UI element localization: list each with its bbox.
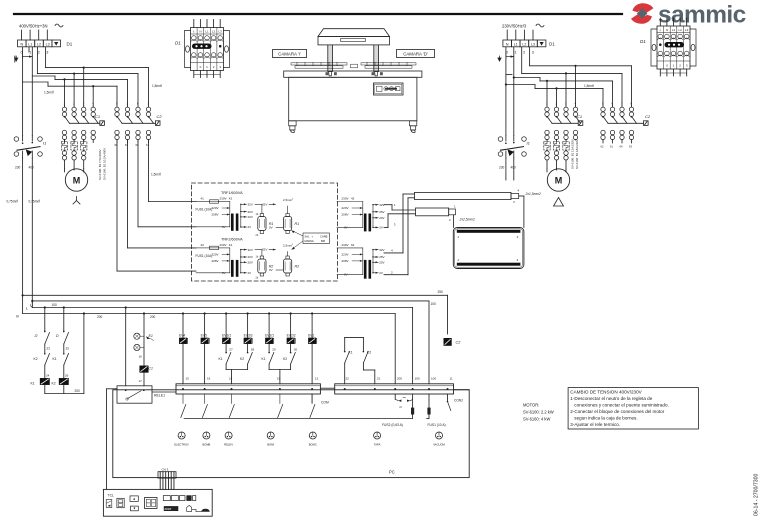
terminal strip 1 (176, 384, 320, 394)
terminal block D1 (physical) (191, 28, 224, 71)
svg-text:L2: L2 (522, 42, 526, 46)
EV5 wire down (204, 344, 206, 384)
frame top border (14, 13, 622, 15)
terminal block D1 (physical) (657, 26, 690, 69)
svg-text:K2: K2 (367, 351, 371, 355)
svg-text:4: 4 (575, 102, 577, 106)
svg-text:41: 41 (201, 197, 205, 201)
coil K2 (59, 378, 68, 384)
seal bar assembly right (361, 63, 416, 65)
svg-text:L3: L3 (219, 30, 223, 34)
svg-text:1b: 1b (256, 213, 259, 216)
svg-text:TRF2/600VA: TRF2/600VA (221, 237, 243, 241)
rectifier R2 (258, 259, 266, 273)
neutral bridge right (506, 56, 514, 58)
svg-text:I1: I1 (527, 141, 530, 146)
svg-text:ELECTROV: ELECTROV (174, 443, 189, 447)
aux contact C1 (140, 366, 148, 372)
svg-text:62: 62 (601, 145, 604, 149)
svg-text:M: M (555, 176, 563, 186)
svg-text:SV-6160: B1 10,5A/400V: SV-6160: B1 10,5A/400V (103, 148, 107, 180)
core (231, 214, 234, 231)
svg-text:200: 200 (97, 315, 103, 319)
svg-text:EV5: EV5 (201, 333, 207, 337)
svg-text:27: 27 (229, 348, 233, 352)
seal bar 1 (415, 192, 512, 199)
valve EV4 (182, 312, 184, 314)
svg-text:63: 63 (629, 145, 632, 149)
svg-text:14: 14 (229, 377, 233, 381)
svg-text:230: 230 (499, 166, 505, 170)
svg-text:32V: 32V (248, 203, 253, 207)
EV4 wire down (182, 344, 184, 384)
secondary taps (240, 204, 242, 227)
svg-text:SV-6100: 2.2 kW: SV-6100: 2.2 kW (523, 410, 554, 415)
svg-text:42: 42 (229, 197, 233, 201)
svg-text:L1: L1 (205, 30, 209, 34)
contactor C2 right (601, 107, 605, 111)
svg-text:K2: K2 (34, 357, 38, 361)
seal bar assembly left (291, 63, 347, 65)
wires C2 to transformers (148, 141, 150, 202)
svg-text:1: 1 (515, 51, 517, 55)
svg-text:60: 60 (136, 143, 139, 147)
terminal strip 2 (335, 384, 454, 394)
svg-text:RELEV: RELEV (224, 443, 233, 447)
svg-text:2b: 2b (256, 277, 259, 280)
svg-text:3: 3 (513, 200, 515, 204)
svg-text:I2: I2 (34, 334, 37, 338)
svg-text:0: 0 (666, 64, 668, 68)
svg-text:1-Desconectar el neutro de la: 1-Desconectar el neutro de la regleta de (570, 396, 652, 401)
PE wire (14, 56, 16, 62)
svg-text:1: 1 (546, 102, 548, 106)
wire 32V to R1 (255, 203, 262, 205)
right wire 0 (505, 47, 507, 136)
controller PC box (113, 390, 469, 478)
svg-text:32V: 32V (248, 248, 253, 252)
svg-text:32V: 32V (262, 202, 267, 206)
svg-text:100: 100 (431, 302, 437, 306)
svg-text:M: M (73, 176, 81, 186)
wires supply feed (21, 30, 23, 40)
svg-text:8: 8 (631, 102, 633, 106)
svg-text:28: 28 (251, 348, 255, 352)
svg-text:1b: 1b (256, 256, 259, 259)
svg-text:3: 3 (46, 51, 48, 55)
rectifier R1 (284, 217, 292, 231)
svg-text:3: 3 (148, 102, 150, 106)
svg-text:####: #### (165, 507, 172, 511)
svg-text:42: 42 (351, 197, 355, 201)
svg-text:17: 17 (139, 379, 143, 383)
svg-text:20V: 20V (248, 215, 253, 219)
svg-text:200: 200 (75, 389, 81, 393)
wire bar1 right (519, 195, 524, 197)
svg-text:2: 2 (292, 244, 294, 246)
svg-text:4: 4 (518, 189, 520, 193)
branch I2 (44, 308, 46, 333)
control panel (374, 83, 404, 95)
svg-text:C1: C1 (149, 367, 153, 371)
machine lid top face (318, 29, 390, 37)
svg-text:D1: D1 (640, 39, 646, 44)
svg-text:K2: K2 (52, 382, 56, 386)
svg-text:220V: 220V (342, 253, 349, 257)
svg-text:+: + (313, 240, 315, 243)
svg-text:230V: 230V (220, 197, 227, 201)
svg-text:400V/50Hz+3N: 400V/50Hz+3N (19, 24, 48, 29)
svg-text:2V: 2V (379, 226, 383, 230)
svg-text:16: 16 (139, 355, 143, 359)
svg-text:MOTOR:: MOTOR: (523, 403, 539, 408)
contact K1 (63, 353, 65, 355)
svg-text:220V: 220V (342, 206, 349, 210)
motor M left (64, 169, 66, 173)
svg-text:Z5: Z5 (66, 347, 70, 351)
common line (184, 417, 413, 419)
svg-text:C1: C1 (577, 114, 582, 119)
svg-text:43: 43 (201, 243, 205, 247)
lid post right (374, 45, 379, 72)
svg-text:L: L (26, 307, 28, 311)
svg-text:32V: 32V (262, 248, 267, 252)
svg-text:62: 62 (351, 243, 355, 247)
svg-text:3: 3 (394, 223, 396, 227)
svg-text:20V: 20V (248, 255, 253, 259)
svg-text:K1: K1 (219, 357, 223, 361)
delta symbol (554, 198, 564, 207)
terminal block D1 left (schematic) (18, 40, 27, 47)
svg-text:7: 7 (621, 102, 623, 106)
svg-text:30: 30 (294, 348, 298, 352)
svg-text:16: 16 (207, 377, 211, 381)
bus junction dots (44, 306, 46, 308)
table top (284, 71, 422, 77)
svg-text:K1: K1 (262, 357, 266, 361)
svg-text:K1: K1 (31, 382, 35, 386)
branch D (63, 308, 65, 333)
tcl switch icon (106, 500, 112, 508)
svg-text:1: 1 (64, 102, 66, 106)
svg-text:0V: 0V (269, 268, 273, 272)
svg-text:61: 61 (610, 145, 613, 149)
pair1 join (226, 369, 248, 371)
tcl label block (164, 506, 179, 511)
svg-text:2: 2 (38, 51, 40, 55)
tcl updown buttons (130, 496, 138, 502)
core (231, 260, 234, 277)
svg-text:12: 12 (315, 377, 319, 381)
svg-text:L1: L1 (672, 28, 676, 32)
post bolts (326, 72, 329, 75)
cambio tension note box (568, 388, 698, 429)
svg-text:5: 5 (116, 102, 118, 106)
svg-text:2x1,5mm2: 2x1,5mm2 (525, 192, 542, 196)
svg-text:N: N (506, 42, 509, 46)
pair2 join (269, 369, 291, 371)
svg-text:+: + (312, 236, 314, 239)
svg-text:TRF1/600VA: TRF1/600VA (221, 191, 243, 195)
svg-text:L3: L3 (685, 28, 689, 32)
legend box (303, 233, 330, 244)
center clamp bits (351, 64, 358, 68)
svg-text:2V: 2V (248, 225, 252, 229)
svg-text:R1: R1 (295, 222, 300, 226)
rectifier R1 (258, 217, 266, 231)
leg right (409, 121, 416, 126)
breaker I1 (14, 137, 19, 142)
svg-text:conexiones y conectar el puent: conexiones y conectar el puente suminist… (574, 402, 668, 407)
svg-text:L2: L2 (678, 28, 682, 32)
svg-text:K1: K1 (349, 351, 353, 355)
return wire 200 (45, 393, 84, 395)
svg-text:segun indica la caja de bornes: segun indica la caja de bornes. (574, 416, 637, 421)
svg-text:D1: D1 (549, 42, 555, 47)
motor M right (546, 169, 548, 173)
svg-text:FUS1 (10A): FUS1 (10A) (196, 254, 213, 258)
logo Sammic (631, 2, 746, 29)
svg-text:3: 3 (219, 65, 221, 69)
svg-text:⏚: ⏚ (659, 27, 662, 32)
lid handle slot (341, 39, 366, 42)
svg-text:200: 200 (397, 377, 402, 381)
svg-text:15: 15 (186, 377, 190, 381)
svg-text:3: 3 (83, 102, 85, 106)
svg-text:VACUOM: VACUOM (433, 443, 445, 447)
svg-text:EV2/2: EV2/2 (287, 333, 296, 337)
svg-text:N: N (16, 315, 19, 319)
svg-text:2: 2 (523, 51, 525, 55)
svg-text:N: N (20, 42, 23, 46)
svg-text:220V: 220V (212, 206, 219, 210)
contact K2 (44, 353, 46, 355)
lid post left (328, 45, 333, 72)
svg-text:SV-6100: B1 7,5A/400V: SV-6100: B1 7,5A/400V (98, 149, 102, 180)
svg-text:100: 100 (52, 303, 58, 307)
supply feed wires right (506, 30, 508, 40)
svg-text:4: 4 (517, 258, 519, 262)
relay RELE1 (117, 386, 152, 403)
wire 1 (31, 47, 33, 136)
bar1 left wires (403, 193, 415, 195)
svg-text:1: 1 (394, 203, 396, 207)
svg-text:22: 22 (346, 377, 350, 381)
svg-text:4: 4 (391, 249, 393, 253)
svg-text:3: 3 (532, 51, 534, 55)
leg left (289, 121, 296, 126)
svg-text:19: 19 (277, 377, 281, 381)
tcl dual digit display (145, 498, 158, 509)
contactor C1 (62, 107, 66, 111)
thermal relay F1 (64, 140, 66, 142)
svg-text:2: 2 (213, 65, 215, 69)
svg-text:L2: L2 (37, 42, 41, 46)
neutral bridge (23, 56, 33, 58)
valve EV3/1 (225, 312, 227, 314)
strip link (320, 387, 334, 389)
thermal relay F1 right (546, 140, 548, 142)
coil K1 (40, 378, 49, 384)
RELE1 to strip (152, 391, 176, 393)
legend arrows (292, 231, 304, 237)
svg-text:CARB: CARB (320, 235, 328, 239)
svg-text:2: 2 (53, 91, 55, 93)
svg-text:61: 61 (146, 143, 149, 147)
svg-text:208V: 208V (212, 213, 219, 217)
svg-text:FUS1 (10A): FUS1 (10A) (196, 208, 213, 212)
wire to RELE1 (125, 308, 127, 386)
svg-text:2: 2 (593, 85, 595, 87)
svg-text:400: 400 (29, 166, 35, 170)
svg-text:6: 6 (612, 102, 614, 106)
valve EV5 (204, 312, 206, 314)
svg-text:2-Conectar el bloque de conexi: 2-Conectar el bloque de conexiones del m… (570, 409, 664, 414)
svg-text:250: 250 (438, 290, 444, 294)
svg-text:3: 3 (686, 64, 688, 68)
svg-text:230V: 230V (342, 197, 349, 201)
EV1 wire down (311, 344, 313, 384)
valve EV1 (311, 312, 313, 314)
svg-text:208V: 208V (342, 213, 349, 217)
svg-text:L3: L3 (46, 42, 50, 46)
thermal klixon (394, 394, 396, 399)
svg-text:2: 2 (679, 64, 681, 68)
PE arrow right (498, 56, 501, 61)
svg-text:1: 1 (673, 64, 675, 68)
label CAMARA I (273, 50, 307, 58)
svg-text:208V: 208V (212, 259, 219, 263)
svg-text:100: 100 (415, 377, 420, 381)
svg-text:COM: COM (321, 401, 329, 405)
svg-text:kl: kl (400, 405, 403, 409)
svg-text:200: 200 (150, 315, 156, 319)
valve EV2/2 (290, 312, 292, 314)
svg-text:I1: I1 (43, 141, 46, 146)
svg-text:N: N (666, 28, 668, 32)
svg-text:11: 11 (450, 377, 453, 381)
wire bar2 right (453, 215, 455, 228)
valve EV3/2 (247, 312, 249, 314)
svg-text:SAL: SAL (305, 235, 311, 239)
core seal trf (364, 214, 367, 232)
dashed enclosure TRF (192, 183, 338, 281)
svg-text:2V: 2V (248, 271, 252, 275)
machine lid front face (318, 37, 390, 45)
svg-text:TAPA: TAPA (374, 443, 381, 447)
svg-text:L3: L3 (531, 42, 535, 46)
bus line L (31, 301, 33, 308)
svg-text:20V: 20V (248, 210, 253, 214)
svg-text:BM: BM (321, 239, 326, 243)
svg-text:2: 2 (449, 218, 451, 222)
svg-text:K2: K2 (240, 357, 244, 361)
svg-text:SV-6160: B1 18A/230V: SV-6160: B1 18A/230V (575, 139, 579, 169)
svg-text:K1: K1 (53, 357, 57, 361)
svg-text:1: 1 (458, 235, 460, 239)
svg-text:25V: 25V (379, 255, 384, 259)
coil C2 (444, 338, 451, 345)
fuse FUS2 (412, 394, 414, 408)
svg-text:26: 26 (65, 374, 69, 378)
svg-text:BOMC: BOMC (309, 443, 317, 447)
connector CN2 (447, 394, 449, 401)
lamp E1 (143, 314, 145, 333)
wires from rectifier box to seal trf (337, 201, 339, 203)
tcl digit (117, 498, 124, 507)
svg-text:0: 0 (200, 65, 202, 69)
svg-text:EV3/2: EV3/2 (244, 333, 253, 337)
vacuum chamber heater box (453, 228, 524, 269)
wire L1 to contactors (28, 47, 30, 52)
svg-text:EV2/1: EV2/1 (265, 333, 274, 337)
svg-text:K2: K2 (283, 357, 287, 361)
bar2 left wires (392, 209, 416, 211)
contactor C1 right (545, 107, 549, 111)
svg-text:20V: 20V (248, 261, 253, 265)
svg-text:21: 21 (377, 377, 381, 381)
svg-text:D: D (56, 334, 59, 338)
svg-text:2: 2 (556, 102, 558, 106)
right staircase L3 (529, 47, 531, 66)
svg-text:0V: 0V (269, 226, 273, 230)
svg-text:RELE1: RELE1 (154, 394, 165, 398)
contactor C2 (115, 107, 119, 111)
svg-text:2: 2 (160, 173, 162, 175)
svg-text:230V/50Hz/3: 230V/50Hz/3 (502, 24, 527, 29)
valve EV2/1 (268, 312, 270, 314)
label CAMARA D (397, 50, 435, 58)
right staircase L1 (506, 74, 512, 76)
svg-text:1: 1 (127, 102, 129, 106)
connector pin slashes (182, 394, 184, 404)
svg-text:L2: L2 (212, 30, 216, 34)
svg-text:SV-6100: B1 13A/230V: SV-6100: B1 13A/230V (571, 139, 575, 169)
svg-text:2V: 2V (379, 271, 383, 275)
svg-text:FUS1 (10 A): FUS1 (10 A) (428, 423, 446, 427)
rectifier R2 (284, 259, 292, 273)
bus line 2 (32, 300, 429, 302)
svg-text:R2: R2 (295, 265, 300, 269)
bus line N (22, 295, 24, 313)
svg-text:6: 6 (137, 102, 139, 106)
svg-text:CAMBIO DE TENSION 400V/230V: CAMBIO DE TENSION 400V/230V (570, 389, 642, 394)
wire 32V to R2 (255, 249, 262, 251)
svg-text:2: 2 (292, 199, 294, 201)
svg-text:N: N (199, 30, 201, 34)
svg-text:2x2,5mm2: 2x2,5mm2 (459, 218, 476, 222)
svg-text:32V: 32V (379, 248, 384, 252)
svg-text:1: 1 (206, 65, 208, 69)
svg-text:2: 2 (457, 258, 460, 262)
svg-text:100: 100 (431, 377, 436, 381)
svg-text:C2: C2 (645, 114, 651, 119)
svg-text:⏚: ⏚ (192, 29, 195, 34)
svg-text:TCL: TCL (108, 494, 115, 498)
tcl button row (163, 496, 170, 501)
svg-text:2: 2 (39, 200, 41, 202)
svg-text:230V: 230V (220, 243, 227, 247)
tcl pump icon (187, 505, 192, 511)
svg-text:230: 230 (15, 166, 21, 170)
terminal block D1 right (schematic) (503, 40, 512, 47)
seal bar 2 (416, 208, 449, 216)
svg-text:Z3: Z3 (47, 347, 51, 351)
connector sockets (178, 432, 185, 439)
svg-text:20V: 20V (379, 261, 384, 265)
svg-text:BOMB: BOMB (202, 443, 210, 447)
svg-text:06-14 - 2700/7300: 06-14 - 2700/7300 (754, 473, 760, 516)
